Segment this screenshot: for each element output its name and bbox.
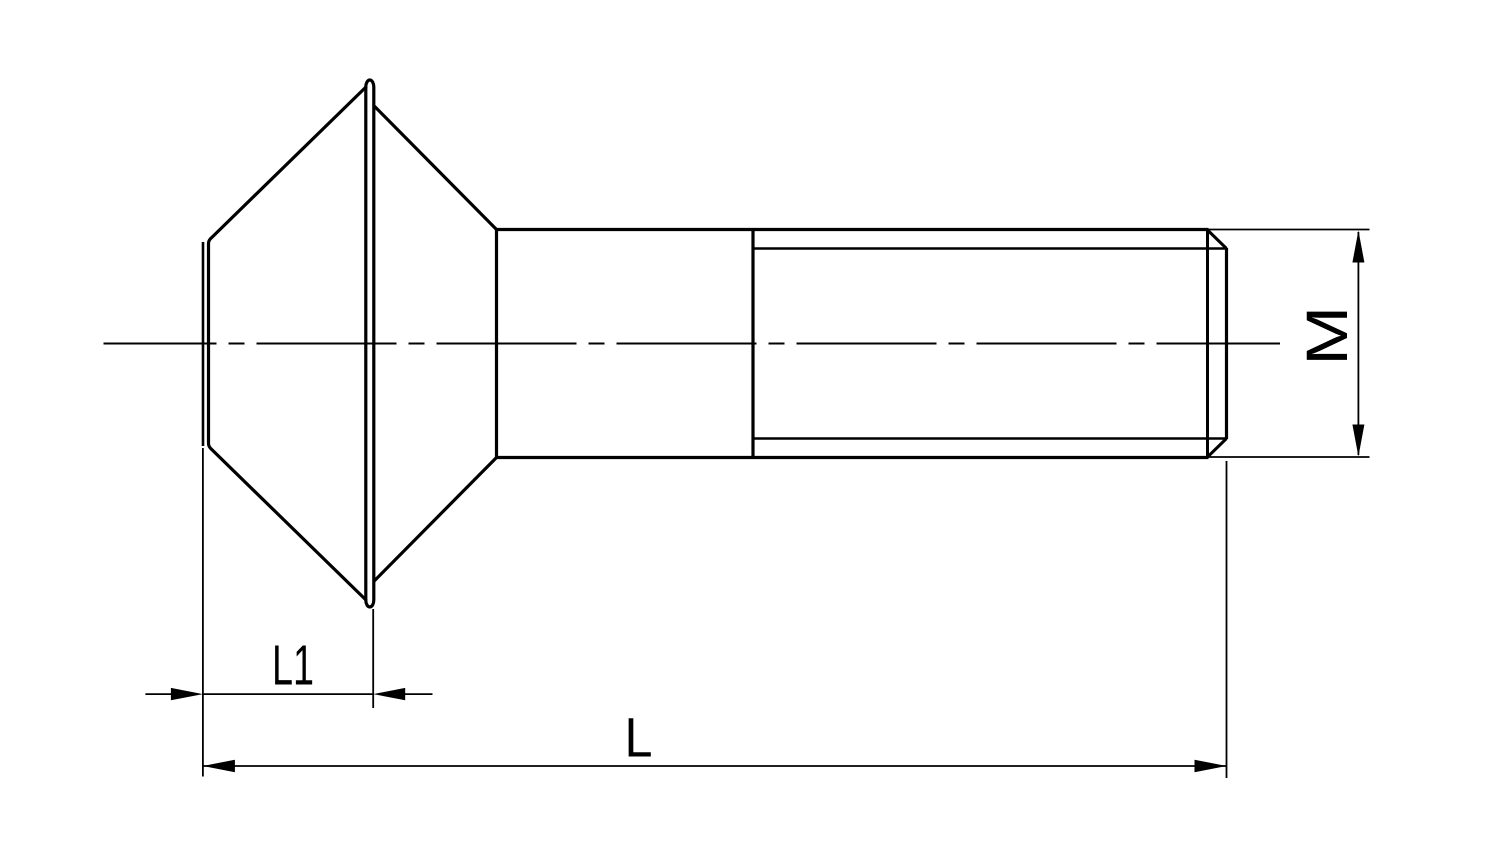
chamfer bottom diagonal bbox=[1208, 439, 1227, 458]
shank top line bbox=[495, 228, 1209, 231]
shank bottom line bbox=[495, 456, 1209, 459]
svg-text:L1: L1 bbox=[272, 635, 314, 698]
head left face (main outline with rounded corners) bbox=[209, 87, 367, 601]
M dimension arrow bottom bbox=[1352, 425, 1364, 457]
L left arrow (inside, pointing left) bbox=[203, 760, 235, 773]
centerline (axis, dash-dot) bbox=[104, 343, 1281, 345]
L right extension line bbox=[1226, 461, 1228, 778]
L1 dimension line bbox=[203, 693, 373, 695]
L1 right arrow tail bbox=[403, 693, 433, 695]
head left face edge line (secondary) bbox=[202, 242, 205, 446]
end face line bbox=[1225, 248, 1228, 439]
thread runout line bbox=[751, 230, 754, 458]
L1 right extension line bbox=[372, 609, 374, 708]
head rim (max diameter land, stadium shape) bbox=[366, 80, 374, 607]
countersink cone lower edge bbox=[374, 457, 497, 581]
L1 left arrow tail bbox=[145, 693, 174, 695]
M dimension arrow top bbox=[1352, 231, 1364, 263]
chamfer top diagonal bbox=[1208, 230, 1227, 249]
svg-text:M: M bbox=[1295, 306, 1360, 366]
countersink cone upper edge bbox=[374, 106, 497, 230]
L1 left extension line / head face edge extension bbox=[202, 448, 204, 777]
head/shank junction line bbox=[495, 230, 498, 458]
M dimension extension line bottom bbox=[1209, 456, 1370, 458]
L right arrow (inside, pointing right) bbox=[1195, 760, 1227, 773]
L1 right arrow (outside, pointing left) bbox=[373, 688, 405, 700]
M dimension line bbox=[1357, 232, 1359, 455]
chamfer start line bbox=[1206, 230, 1209, 458]
L dimension line bbox=[203, 765, 1227, 767]
M dimension extension line top bbox=[1209, 229, 1370, 231]
thread root bottom line bbox=[753, 437, 1226, 439]
L1 left arrow (outside, pointing right) bbox=[171, 688, 203, 700]
thread root top line bbox=[753, 247, 1226, 249]
svg-text:L: L bbox=[625, 706, 653, 768]
